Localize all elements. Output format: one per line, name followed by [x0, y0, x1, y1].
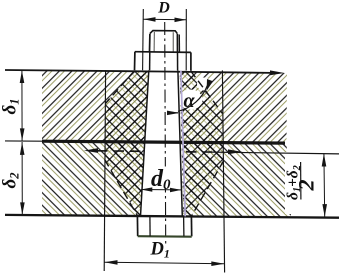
svg-text:δ1: δ1: [0, 99, 22, 115]
svg-text:α: α: [184, 90, 196, 112]
svg-text:D1: D1: [150, 240, 170, 261]
svg-text:2: 2: [294, 180, 319, 192]
svg-text:δ2: δ2: [0, 173, 22, 189]
svg-text:D: D: [157, 0, 170, 17]
